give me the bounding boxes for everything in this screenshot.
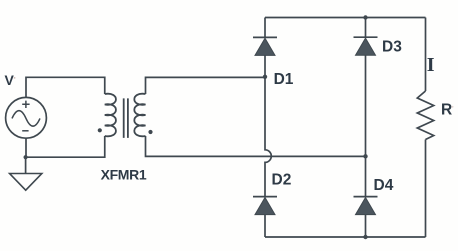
artifact dot after V: [14, 77, 16, 79]
svg-text:V: V: [5, 72, 15, 88]
wire primary bottom: [26, 136, 105, 157]
svg-text:D1: D1: [274, 71, 294, 88]
wire secondary top to D1 node: [146, 77, 266, 94]
diode D4: [354, 156, 378, 237]
transformer XFMR1 secondary winding: [134, 94, 145, 137]
wire secondary bottom to D4 node: [146, 136, 366, 156]
node D1-D2 midpoint: [263, 75, 267, 79]
transformer core: [124, 98, 128, 137]
svg-text:D4: D4: [374, 177, 394, 194]
svg-text:R: R: [441, 102, 452, 119]
node bottom rail / D4: [363, 235, 367, 239]
svg-text:XFMR1: XFMR1: [101, 166, 147, 182]
diode D2: [253, 197, 277, 237]
artifact dot after R: [452, 106, 454, 108]
svg-text:D3: D3: [382, 39, 402, 56]
resistor R: [417, 91, 433, 140]
wire primary top: [26, 77, 105, 97]
wire right rail bottom: [425, 140, 427, 238]
wire bottom rail: [265, 236, 426, 238]
node top rail / D3: [363, 15, 367, 19]
wire right rail top: [425, 18, 427, 92]
diode D1: [253, 18, 277, 77]
diode D3: [354, 18, 378, 157]
svg-text:I: I: [427, 54, 435, 76]
svg-text:D2: D2: [272, 172, 292, 189]
wire top rail: [265, 17, 426, 19]
node D3-D4 midpoint: [363, 154, 367, 158]
voltage source V1: [6, 97, 47, 138]
phase dot primary: [98, 128, 102, 132]
wire D1 node down with hop over AC wire: [265, 77, 271, 196]
ground: [10, 157, 42, 190]
phase dot secondary: [148, 130, 152, 134]
node primary ground junction: [24, 155, 28, 159]
transformer XFMR1 primary winding: [105, 94, 116, 137]
